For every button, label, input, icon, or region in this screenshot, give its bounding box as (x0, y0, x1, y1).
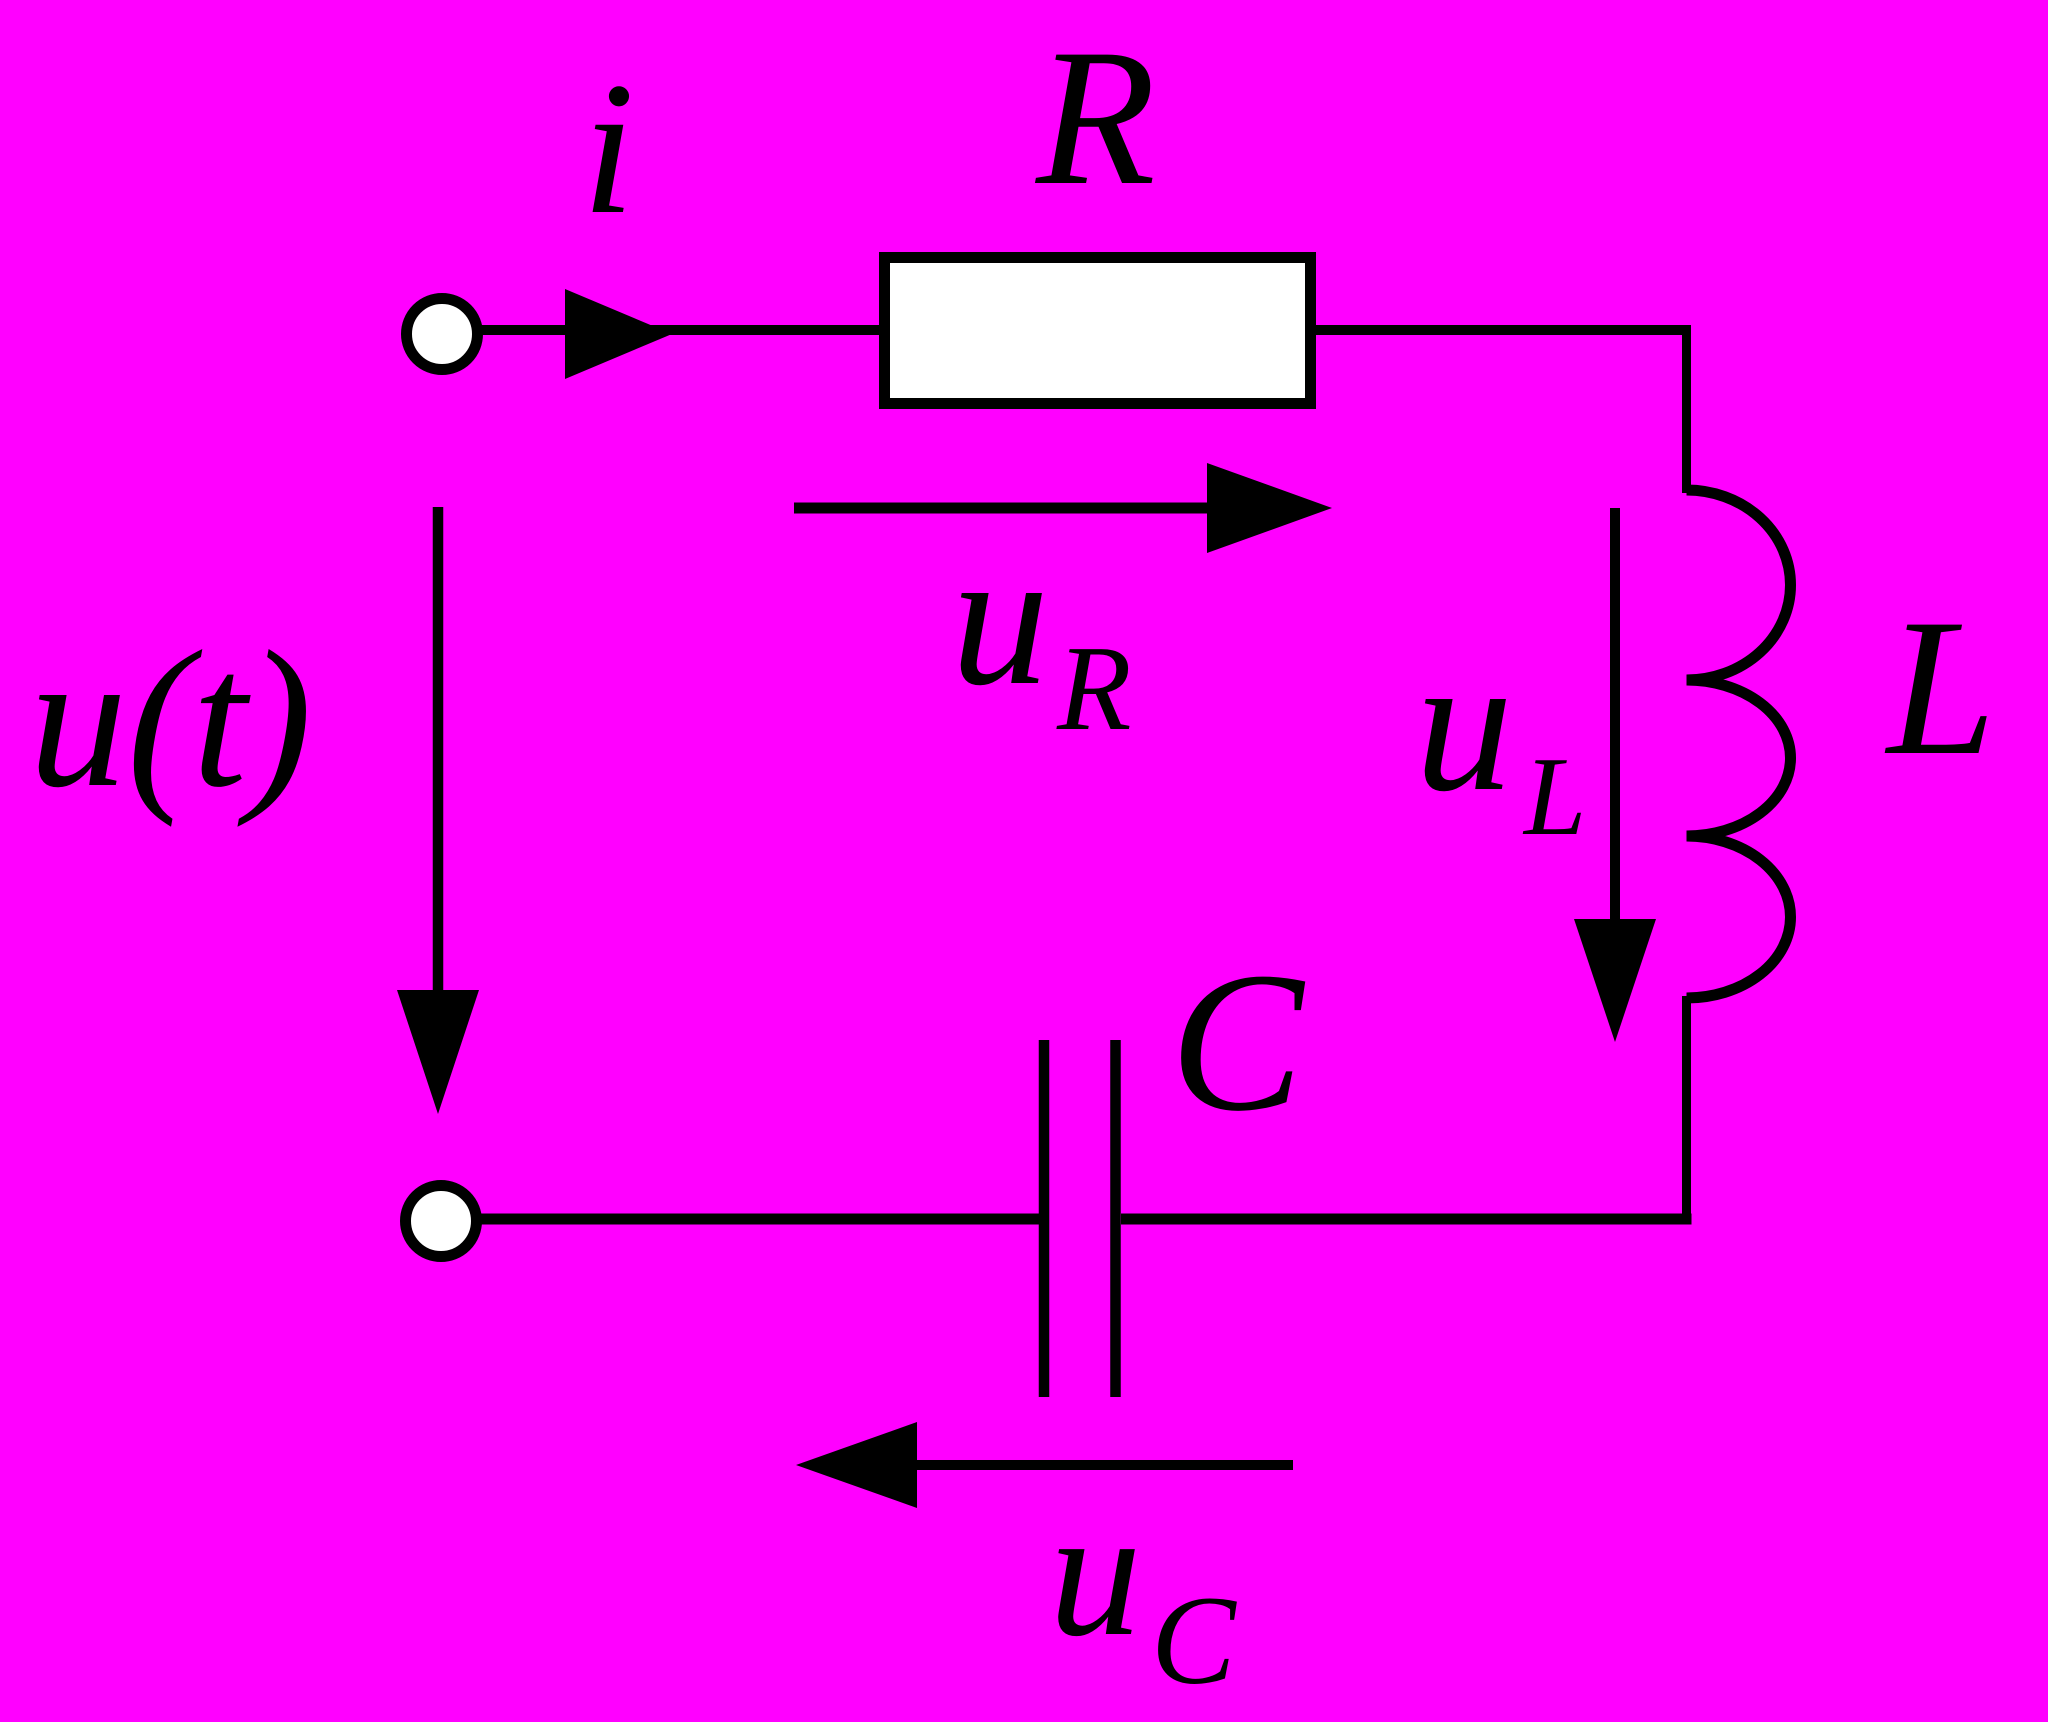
terminal node bottom-left (406, 1186, 477, 1257)
u(t) source voltage arrow (433, 507, 444, 995)
svg-text:u(t): u(t) (29, 611, 312, 828)
svg-text:u: u (951, 509, 1049, 726)
wire top horizontal (476, 325, 1691, 335)
wire right vertical lower (1682, 996, 1691, 1224)
uL voltage arrow (1610, 508, 1620, 922)
wire bottom right (capacitor to corner) (1121, 1214, 1692, 1225)
svg-text:L: L (1522, 735, 1586, 859)
capacitor C left plate (1039, 1040, 1050, 1397)
wire bottom left (terminal to capacitor) (477, 1214, 1049, 1225)
svg-text:i: i (582, 44, 635, 254)
capacitor C right plate (1110, 1040, 1121, 1397)
uC voltage arrow (912, 1460, 1293, 1470)
uR voltage arrow (794, 503, 1215, 514)
svg-text:L: L (1884, 579, 1996, 796)
svg-text:u: u (1049, 1470, 1142, 1675)
svg-text:C: C (1151, 1571, 1237, 1711)
wire right vertical upper (1682, 325, 1691, 493)
svg-text:C: C (1170, 932, 1306, 1153)
svg-text:R: R (1034, 9, 1156, 226)
inductor L coil arcs (1687, 490, 1791, 998)
arrow i (current arrow on top wire) (565, 289, 672, 379)
svg-text:R: R (1056, 621, 1132, 756)
terminal node top-left (407, 299, 478, 370)
resistor R (885, 258, 1311, 404)
svg-text:u: u (1415, 615, 1513, 832)
